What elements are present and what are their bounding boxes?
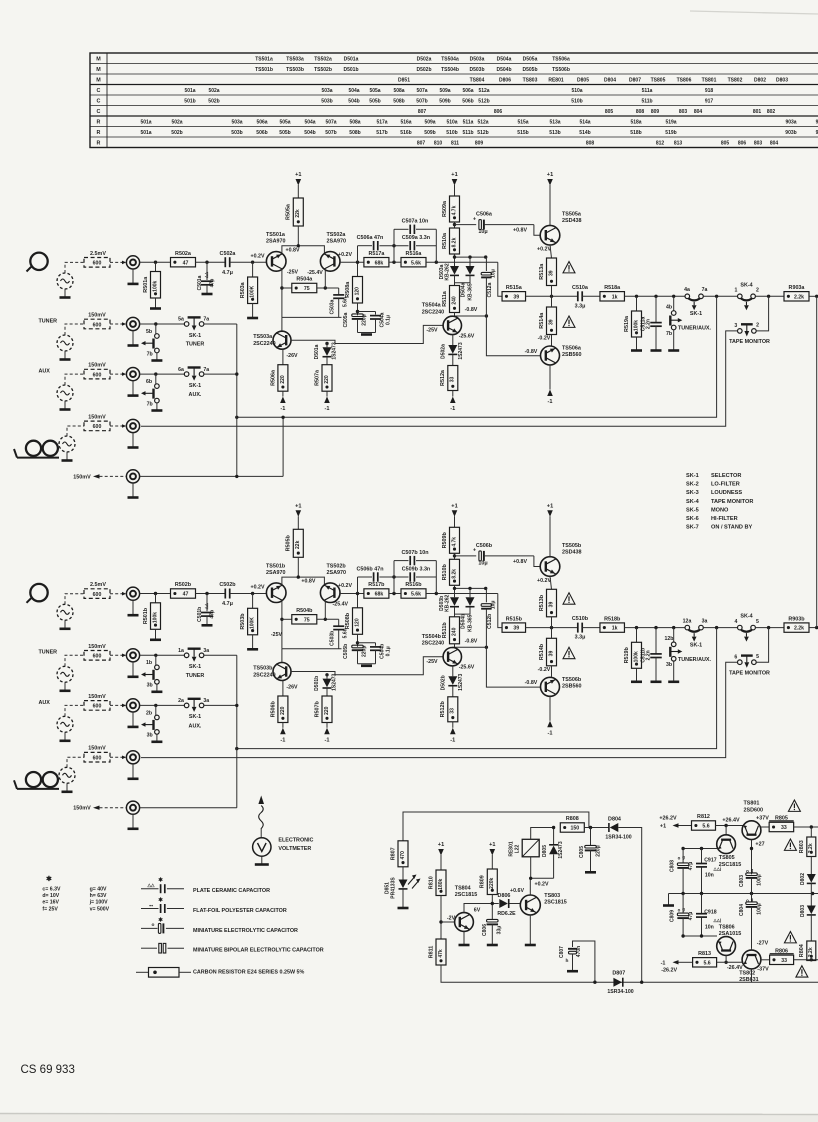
svg-text:D501a: D501a — [344, 56, 359, 62]
svg-text:6b: 6b — [146, 379, 152, 385]
svg-text:△△j: △△j — [713, 866, 722, 871]
svg-text:C501b: C501b — [197, 607, 203, 622]
resistor R506b 220 — [282, 680, 284, 696]
svg-text:C510a: C510a — [572, 285, 589, 291]
svg-text:808: 808 — [636, 109, 645, 115]
supply -1 — [547, 721, 553, 728]
svg-text:512a: 512a — [477, 119, 488, 125]
svg-text:1SR34-100: 1SR34-100 — [607, 989, 633, 995]
svg-text:D805: D805 — [542, 845, 548, 857]
svg-text:R514a: R514a — [539, 312, 545, 329]
svg-text:150mV: 150mV — [73, 474, 91, 480]
svg-text:2SA970: 2SA970 — [327, 570, 346, 576]
svg-text:2SB560: 2SB560 — [562, 352, 581, 358]
svg-text:47p: 47p — [210, 610, 216, 619]
svg-text:R: R — [97, 119, 101, 125]
svg-text:220: 220 — [324, 375, 330, 384]
svg-text:R903b: R903b — [788, 616, 805, 622]
svg-text:AUX: AUX — [39, 369, 51, 375]
svg-text:2SB560: 2SB560 — [562, 683, 581, 689]
svg-text:KB-365: KB-365 — [468, 283, 474, 300]
warning triangle — [784, 839, 796, 850]
wire tape monitor to node — [756, 628, 768, 663]
svg-text:+1: +1 — [451, 172, 457, 178]
capacitor C512b 10u — [485, 588, 487, 602]
svg-text:150mV: 150mV — [88, 363, 106, 369]
svg-text:-25V: -25V — [426, 659, 438, 665]
resistor R503a 100K — [252, 262, 254, 277]
svg-text:75: 75 — [304, 286, 310, 292]
svg-text:509b: 509b — [439, 98, 450, 104]
svg-text:519a: 519a — [665, 119, 676, 125]
svg-text:R516a: R516a — [406, 251, 423, 257]
svg-text:3.3μ: 3.3μ — [575, 635, 586, 641]
svg-text:600: 600 — [93, 756, 102, 762]
svg-text:ELECTRONIC: ELECTRONIC — [278, 838, 313, 844]
svg-text:✱: ✱ — [158, 917, 163, 924]
signal source generator — [59, 767, 75, 783]
svg-text:2SA970: 2SA970 — [327, 239, 346, 245]
svg-text:517b: 517b — [376, 130, 387, 136]
warning triangle — [784, 932, 796, 943]
svg-text:39: 39 — [548, 651, 554, 657]
svg-text:7b: 7b — [666, 331, 672, 337]
svg-text:TUNER/AUX.: TUNER/AUX. — [678, 326, 711, 332]
svg-text:2SA970: 2SA970 — [266, 239, 285, 245]
svg-text:TS501b: TS501b — [255, 67, 273, 73]
svg-text:KB-365: KB-365 — [468, 614, 474, 631]
svg-text:240: 240 — [451, 627, 457, 636]
svg-text:D804: D804 — [608, 816, 621, 822]
svg-text:33: 33 — [450, 708, 456, 714]
diode D502b 1S2473 — [452, 666, 454, 677]
supply -1 — [547, 390, 553, 397]
resistor R903a 2.2k — [784, 292, 809, 301]
svg-text:10μ: 10μ — [491, 269, 497, 278]
tape reels icon — [26, 772, 41, 787]
svg-text:TS502b: TS502b — [314, 67, 332, 73]
svg-text:5.6k: 5.6k — [411, 592, 421, 598]
svg-text:600: 600 — [93, 261, 102, 267]
svg-text:R505a: R505a — [286, 203, 292, 220]
svg-text:10n: 10n — [705, 873, 714, 879]
svg-text:o: o — [152, 923, 155, 928]
ground — [361, 333, 372, 336]
svg-text:1SR34-100: 1SR34-100 — [605, 834, 631, 840]
svg-text:2SD438: 2SD438 — [562, 549, 581, 555]
svg-text:501b: 501b — [184, 98, 195, 104]
resistor R502a 47 — [171, 258, 196, 267]
page edge bottom — [0, 1113, 818, 1122]
svg-text:5.6k: 5.6k — [411, 260, 421, 266]
svg-text:120: 120 — [354, 287, 360, 296]
svg-text:505a: 505a — [369, 88, 380, 94]
diode D803 — [810, 894, 812, 906]
switch SK-1 contact 4b — [673, 296, 675, 310]
svg-text:R: R — [97, 140, 101, 146]
svg-text:240: 240 — [451, 296, 457, 305]
svg-text:120: 120 — [354, 618, 360, 627]
emitter row — [683, 848, 717, 850]
svg-text:506a: 506a — [462, 88, 473, 94]
svg-text:470n: 470n — [576, 946, 582, 957]
svg-text:+0.2V: +0.2V — [338, 583, 352, 589]
warning triangle — [796, 966, 808, 977]
ground — [567, 970, 578, 973]
warning triangle — [563, 593, 575, 604]
svg-text:+37V: +37V — [756, 816, 769, 822]
capacitor C506a 10u coupling — [455, 224, 477, 226]
ground — [247, 317, 258, 320]
svg-text:R508b: R508b — [345, 612, 351, 629]
svg-text:C505a: C505a — [343, 312, 349, 327]
ground — [151, 409, 162, 412]
svg-text:47p: 47p — [210, 279, 216, 288]
svg-text:TS503b: TS503b — [286, 67, 304, 73]
svg-text:D504a: D504a — [461, 282, 467, 297]
ground — [398, 907, 409, 910]
ground — [361, 664, 372, 667]
svg-text:LO-FILTER: LO-FILTER — [711, 482, 740, 488]
svg-text:-25.6V: -25.6V — [459, 333, 475, 339]
resistor R504a 75 — [282, 287, 292, 289]
svg-text:R512b: R512b — [440, 701, 446, 718]
svg-text:SK-3: SK-3 — [686, 490, 699, 496]
svg-text:SK-7: SK-7 — [686, 525, 699, 531]
svg-text:506a: 506a — [256, 119, 267, 125]
svg-text:1a: 1a — [178, 648, 184, 654]
svg-text:TS501a: TS501a — [266, 232, 286, 238]
capacitor C806 33u — [487, 919, 499, 922]
electronic voltmeter probe — [259, 806, 264, 829]
wire to bus — [204, 654, 237, 656]
tape out wire — [140, 807, 237, 809]
svg-text:10μ: 10μ — [478, 229, 487, 235]
svg-text:903a: 903a — [785, 119, 796, 125]
svg-text:808: 808 — [586, 140, 595, 146]
svg-text:D805: D805 — [577, 77, 589, 83]
svg-text:D806: D806 — [498, 893, 511, 899]
svg-text:508b: 508b — [393, 98, 404, 104]
collector node — [751, 840, 753, 875]
svg-text:-37V: -37V — [757, 966, 769, 972]
svg-text:R804: R804 — [799, 944, 805, 957]
svg-text:6: 6 — [734, 654, 737, 660]
svg-text:-25.6V: -25.6V — [459, 665, 475, 671]
resistor R515b 39 — [502, 623, 526, 632]
svg-text:1b: 1b — [146, 660, 152, 666]
svg-text:R517b: R517b — [368, 582, 385, 588]
svg-text:C503a: C503a — [329, 299, 335, 314]
svg-text:+1: +1 — [547, 172, 553, 178]
svg-text:501a: 501a — [140, 119, 151, 125]
svg-text:917: 917 — [705, 98, 714, 104]
svg-text:R808: R808 — [566, 816, 579, 822]
svg-text:100μ: 100μ — [757, 874, 763, 885]
svg-text:2.2n: 2.2n — [645, 319, 651, 329]
ground — [668, 680, 679, 683]
signal source generator — [57, 385, 73, 401]
svg-text:-0.2V: -0.2V — [538, 667, 551, 673]
svg-text:R503a: R503a — [240, 281, 246, 298]
svg-text:D804: D804 — [604, 77, 616, 83]
svg-text:510b: 510b — [571, 98, 582, 104]
svg-text:39: 39 — [548, 319, 554, 325]
wire to switch — [140, 654, 185, 656]
svg-text:3b: 3b — [147, 733, 153, 739]
svg-text:D803: D803 — [776, 77, 788, 83]
svg-text:+1: +1 — [438, 842, 444, 848]
svg-text:220k: 220k — [489, 877, 495, 888]
wire to TS506 base — [486, 316, 540, 356]
svg-text:600: 600 — [93, 704, 102, 710]
svg-text:D802: D802 — [754, 77, 766, 83]
svg-text:R501b: R501b — [143, 607, 149, 624]
svg-text:-1: -1 — [450, 406, 455, 412]
svg-text:TUNER/AUX.: TUNER/AUX. — [678, 657, 711, 663]
resistor R508a 120 — [357, 262, 359, 276]
svg-text:600: 600 — [93, 424, 102, 430]
svg-text:3a: 3a — [702, 619, 708, 625]
svg-text:505a: 505a — [279, 119, 290, 125]
svg-text:0.1μ: 0.1μ — [385, 646, 391, 656]
svg-text:L22: L22 — [514, 844, 520, 853]
ground — [151, 740, 162, 743]
svg-text:TS804: TS804 — [470, 77, 485, 83]
resistor R807 470 — [398, 841, 408, 867]
ground — [150, 638, 161, 641]
base wire to TS504 — [291, 657, 443, 675]
svg-text:o: o — [678, 908, 681, 913]
svg-text:R513a: R513a — [539, 263, 545, 280]
node wire — [282, 316, 342, 318]
svg-text:501a: 501a — [184, 88, 195, 94]
svg-text:R504b: R504b — [296, 608, 313, 614]
svg-text:TS806: TS806 — [719, 924, 735, 930]
svg-text:507b: 507b — [325, 130, 336, 136]
page edge top right — [690, 11, 818, 14]
svg-text:5a: 5a — [178, 317, 184, 323]
svg-text:33μ: 33μ — [497, 926, 503, 935]
resistor R511b 240 — [454, 607, 456, 617]
svg-text:R515a: R515a — [506, 285, 523, 291]
svg-text:TS505a: TS505a — [562, 212, 582, 218]
svg-text:TUNER: TUNER — [186, 342, 205, 348]
capacitor C503b 5.6n — [338, 619, 340, 626]
svg-text:7b: 7b — [147, 351, 153, 357]
svg-text:TS501b: TS501b — [266, 563, 286, 569]
flat-foil polyester capacitor symbol — [141, 908, 159, 910]
svg-text:-1: -1 — [325, 737, 330, 743]
svg-text:TS801: TS801 — [702, 77, 717, 83]
svg-text:6a: 6a — [178, 367, 184, 373]
svg-text:●●: ●● — [149, 904, 153, 908]
node wire — [282, 648, 342, 650]
svg-text:5: 5 — [756, 654, 759, 660]
svg-text:8.2k: 8.2k — [451, 237, 457, 247]
svg-text:SK-4: SK-4 — [740, 282, 752, 288]
wire to bus — [204, 323, 237, 325]
svg-text:10μ: 10μ — [491, 600, 497, 609]
ground — [631, 680, 642, 683]
resistor R516a 5.6k — [401, 258, 426, 267]
svg-text:TS505b: TS505b — [562, 543, 582, 549]
svg-text:FLAT-FOIL POLYESTER CAPACITOR: FLAT-FOIL POLYESTER CAPACITOR — [193, 908, 287, 914]
svg-text:TS806: TS806 — [677, 77, 692, 83]
svg-text:5.6: 5.6 — [702, 824, 709, 830]
signal source generator — [59, 436, 75, 452]
svg-text:+0.2V: +0.2V — [251, 253, 265, 259]
svg-text:C502b: C502b — [219, 582, 236, 588]
svg-text:2SC1815: 2SC1815 — [719, 862, 741, 868]
svg-text:515b: 515b — [517, 130, 528, 136]
svg-text:AUX.: AUX. — [189, 392, 202, 398]
bias node row — [455, 256, 486, 258]
svg-text:R507a: R507a — [314, 369, 320, 386]
resistor R513a 39 — [550, 245, 552, 258]
svg-text:100k: 100k — [633, 651, 639, 662]
wire to R515 — [498, 262, 502, 296]
svg-text:R803: R803 — [799, 840, 805, 853]
svg-text:C808: C808 — [670, 860, 676, 872]
svg-text:804: 804 — [770, 140, 779, 146]
svg-text:806: 806 — [494, 109, 503, 115]
resistor R513b 39 — [550, 576, 552, 589]
resistor R517a 68k — [364, 258, 389, 267]
resistor R812 5.6 — [692, 821, 716, 830]
svg-text:HI-FILTER: HI-FILTER — [711, 516, 738, 522]
svg-text:3a: 3a — [203, 698, 209, 704]
svg-text:MONO: MONO — [711, 507, 729, 513]
svg-text:68k: 68k — [375, 260, 384, 266]
svg-text:AUX.: AUX. — [189, 723, 202, 729]
svg-text:C502a: C502a — [220, 251, 237, 257]
resistor R805 33 — [761, 826, 769, 828]
resistor R510b 8.2k — [450, 559, 460, 585]
svg-text:D501b: D501b — [314, 676, 320, 691]
svg-text:811: 811 — [451, 140, 459, 146]
diode D502a 1S2473 — [452, 334, 454, 345]
svg-text:TUNER: TUNER — [39, 318, 58, 324]
resistor R512a 33 — [452, 355, 454, 366]
svg-text:SK-5: SK-5 — [686, 507, 699, 513]
svg-text:513b: 513b — [549, 130, 560, 136]
resistor R504b 75 — [282, 618, 292, 620]
capacitor C807 470n — [573, 941, 595, 982]
svg-text:10μ: 10μ — [478, 561, 487, 567]
svg-text:-0.2V: -0.2V — [538, 336, 551, 342]
svg-text:470: 470 — [400, 851, 406, 860]
svg-text:h= 63V: h= 63V — [90, 893, 107, 899]
svg-text:TS502a: TS502a — [314, 56, 332, 62]
svg-text:TS503a: TS503a — [253, 334, 273, 340]
svg-text:R519a: R519a — [624, 315, 630, 332]
svg-text:C506a: C506a — [476, 212, 493, 218]
svg-text:LOUDNESS: LOUDNESS — [711, 490, 742, 496]
resistor R503b 100K — [252, 594, 254, 609]
bias node row — [455, 587, 486, 589]
svg-text:C807: C807 — [559, 946, 565, 958]
capacitor C503a 5.6n — [338, 288, 340, 295]
collector supply rail — [282, 246, 325, 253]
svg-text:TS805: TS805 — [651, 77, 666, 83]
diode D504a KB-365 — [469, 257, 471, 266]
svg-text:TS504a: TS504a — [441, 56, 459, 62]
svg-text:+0.2V: +0.2V — [251, 585, 265, 591]
svg-text:R512a: R512a — [440, 369, 446, 386]
svg-text:5.6: 5.6 — [703, 960, 710, 966]
svg-text:2SC2240: 2SC2240 — [253, 673, 275, 679]
svg-text:47μ: 47μ — [688, 862, 694, 871]
svg-text:+: + — [473, 548, 476, 554]
ground — [487, 944, 498, 947]
svg-text:+0.2V: +0.2V — [338, 252, 352, 258]
svg-text:+26.2V: +26.2V — [659, 816, 677, 822]
svg-text:ON / STAND BY: ON / STAND BY — [711, 525, 752, 531]
ground — [668, 349, 679, 352]
capacitor C509a 3.3n — [409, 241, 411, 250]
svg-text:TS802: TS802 — [728, 77, 743, 83]
svg-text:R518a: R518a — [604, 285, 621, 291]
svg-text:D502a: D502a — [417, 56, 432, 62]
svg-text:C507b 10n: C507b 10n — [402, 550, 429, 556]
resistor R501a 100k — [155, 262, 157, 271]
svg-text:+: + — [473, 216, 476, 222]
svg-text:R513b: R513b — [539, 594, 545, 611]
svg-text:2SD438: 2SD438 — [562, 218, 581, 224]
svg-text:+1: +1 — [295, 172, 301, 178]
svg-text:503a: 503a — [231, 119, 242, 125]
svg-text:C509b 3.3n: C509b 3.3n — [402, 567, 430, 573]
svg-text:D501a: D501a — [314, 344, 320, 359]
svg-text:-1: -1 — [548, 399, 553, 405]
svg-text:802: 802 — [767, 109, 776, 115]
svg-text:PLATE CERAMIC CAPACITOR: PLATE CERAMIC CAPACITOR — [193, 888, 270, 894]
svg-text:MINIATURE BIPOLAR ELECTROLYTIC: MINIATURE BIPOLAR ELECTROLYTIC CAPACITOR — [193, 948, 324, 954]
LED D851 PR4133S — [402, 867, 404, 880]
resistor R516b 5.6k — [401, 589, 426, 598]
svg-text:804: 804 — [694, 109, 703, 115]
svg-text:508a: 508a — [349, 119, 360, 125]
svg-text:g: g — [682, 855, 685, 860]
svg-text:2.2k: 2.2k — [808, 947, 814, 957]
svg-text:0.1μ: 0.1μ — [385, 315, 391, 325]
lower cap row — [683, 935, 717, 937]
svg-text:600: 600 — [93, 322, 102, 328]
svg-text:SK-6: SK-6 — [686, 516, 699, 522]
svg-text:TS801: TS801 — [744, 801, 760, 807]
svg-text:j= 100V: j= 100V — [89, 900, 109, 906]
svg-text:39: 39 — [513, 626, 519, 632]
svg-text:805: 805 — [605, 109, 614, 115]
svg-text:R502a: R502a — [175, 251, 192, 257]
svg-text:100k: 100k — [152, 612, 158, 623]
svg-text:TUNER: TUNER — [186, 673, 205, 679]
svg-text:R809: R809 — [480, 875, 486, 888]
svg-text:809: 809 — [651, 109, 660, 115]
svg-text:C510b: C510b — [572, 616, 589, 622]
svg-text:516b: 516b — [400, 130, 411, 136]
svg-text:△△j: △△j — [713, 917, 722, 922]
svg-text:516a: 516a — [400, 119, 411, 125]
capacitor C809 47u — [682, 894, 684, 914]
capacitor C509b 3.3n — [409, 572, 411, 581]
wire to bus — [204, 373, 237, 375]
resistor R518a 1k — [600, 292, 625, 301]
svg-text:TS503a: TS503a — [286, 56, 304, 62]
svg-text:D503b: D503b — [469, 67, 484, 73]
svg-text:513a: 513a — [549, 119, 560, 125]
